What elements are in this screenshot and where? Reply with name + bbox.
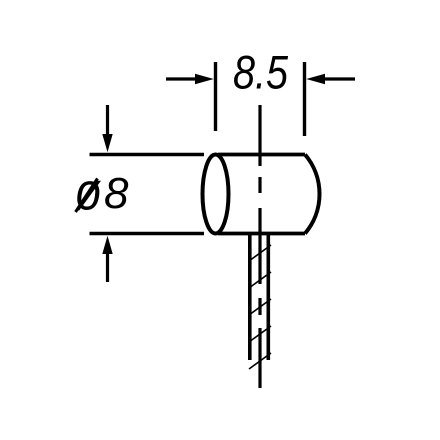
cylinder right end cap (arc): [305, 155, 320, 234]
extension line right of 8.5 dimension: [303, 62, 306, 136]
svg-text:8.5: 8.5: [233, 46, 289, 99]
cable right edge: [266, 234, 270, 361]
cylinder left end face (ellipse): [203, 155, 229, 234]
dimension arrow right (points left): [306, 74, 355, 84]
extension line left of 8.5 dimension: [214, 62, 217, 131]
dimension arrow bottom (points up): [102, 236, 112, 282]
dimension arrow left (points right): [166, 74, 214, 84]
extension line bottom of Ø8 dimension: [90, 232, 205, 236]
svg-text:8: 8: [104, 169, 129, 218]
dimension arrow top (points down): [102, 105, 112, 152]
extension line top of Ø8 dimension (also cylinder top edge line): [90, 153, 205, 157]
cable left edge: [248, 234, 252, 361]
cylinder bottom edge: [218, 232, 305, 236]
diameter symbol slash stroke: [76, 179, 98, 213]
centerline (vertical axis, dash pattern): [258, 105, 261, 388]
cable strand hatch lines: [249, 245, 271, 369]
cylinder top edge: [218, 153, 305, 157]
